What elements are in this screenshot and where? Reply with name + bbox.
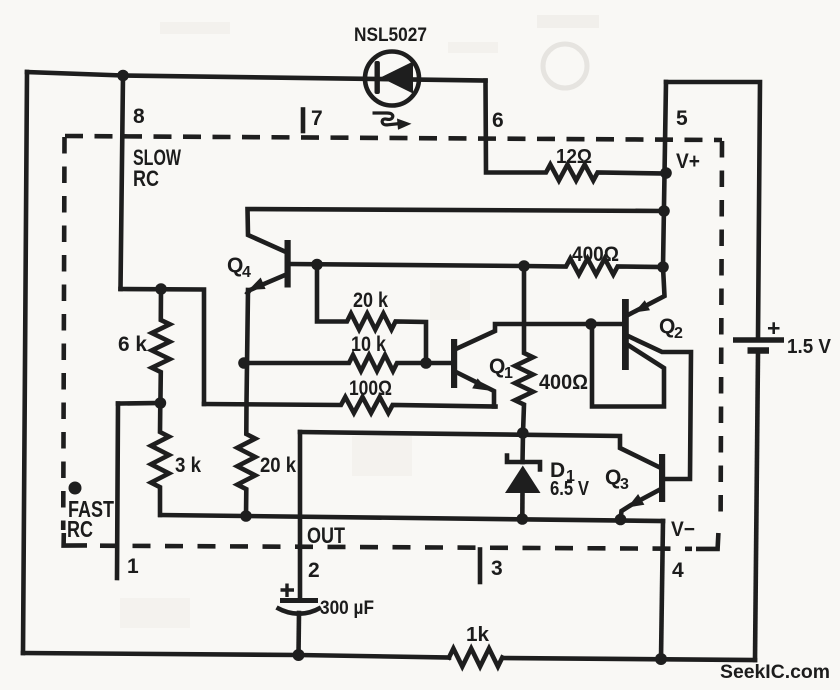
svg-text:Q: Q	[605, 466, 621, 489]
svg-text:+: +	[767, 315, 780, 341]
svg-text:5: 5	[676, 107, 688, 130]
svg-text:20 k: 20 k	[353, 289, 388, 312]
svg-text:Q: Q	[227, 254, 243, 277]
svg-text:1: 1	[127, 555, 139, 578]
svg-text:2: 2	[308, 559, 320, 582]
svg-text:NSL5027: NSL5027	[354, 25, 427, 46]
svg-text:10 k: 10 k	[351, 333, 386, 356]
svg-text:8: 8	[133, 105, 145, 128]
svg-text:1: 1	[504, 365, 513, 382]
svg-text:Q: Q	[489, 355, 505, 378]
svg-text:1k: 1k	[466, 624, 490, 646]
svg-text:2: 2	[674, 325, 683, 342]
svg-text:V+: V+	[676, 150, 700, 173]
svg-text:4: 4	[672, 559, 684, 582]
svg-text:RC: RC	[67, 516, 93, 542]
svg-text:3: 3	[620, 476, 629, 493]
svg-text:Q: Q	[659, 315, 675, 338]
svg-text:20 k: 20 k	[260, 454, 296, 477]
svg-text:7: 7	[311, 107, 323, 130]
svg-text:6.5 V: 6.5 V	[550, 478, 590, 500]
svg-text:6: 6	[492, 109, 504, 132]
svg-text:RC: RC	[133, 166, 159, 191]
svg-text:12Ω: 12Ω	[556, 146, 592, 168]
svg-text:3: 3	[491, 557, 503, 580]
svg-text:OUT: OUT	[307, 523, 345, 548]
svg-text:3 k: 3 k	[175, 454, 201, 477]
svg-text:400Ω: 400Ω	[539, 371, 588, 394]
svg-text:100Ω: 100Ω	[349, 377, 392, 400]
svg-text:300 µF: 300 µF	[320, 598, 374, 619]
svg-text:4: 4	[242, 264, 251, 281]
svg-text:V−: V−	[671, 518, 695, 541]
svg-text:6 k: 6 k	[118, 333, 147, 356]
svg-text:1.5 V: 1.5 V	[787, 336, 832, 358]
svg-text:SeekIC.com: SeekIC.com	[720, 662, 830, 683]
svg-text:400Ω: 400Ω	[572, 243, 619, 266]
